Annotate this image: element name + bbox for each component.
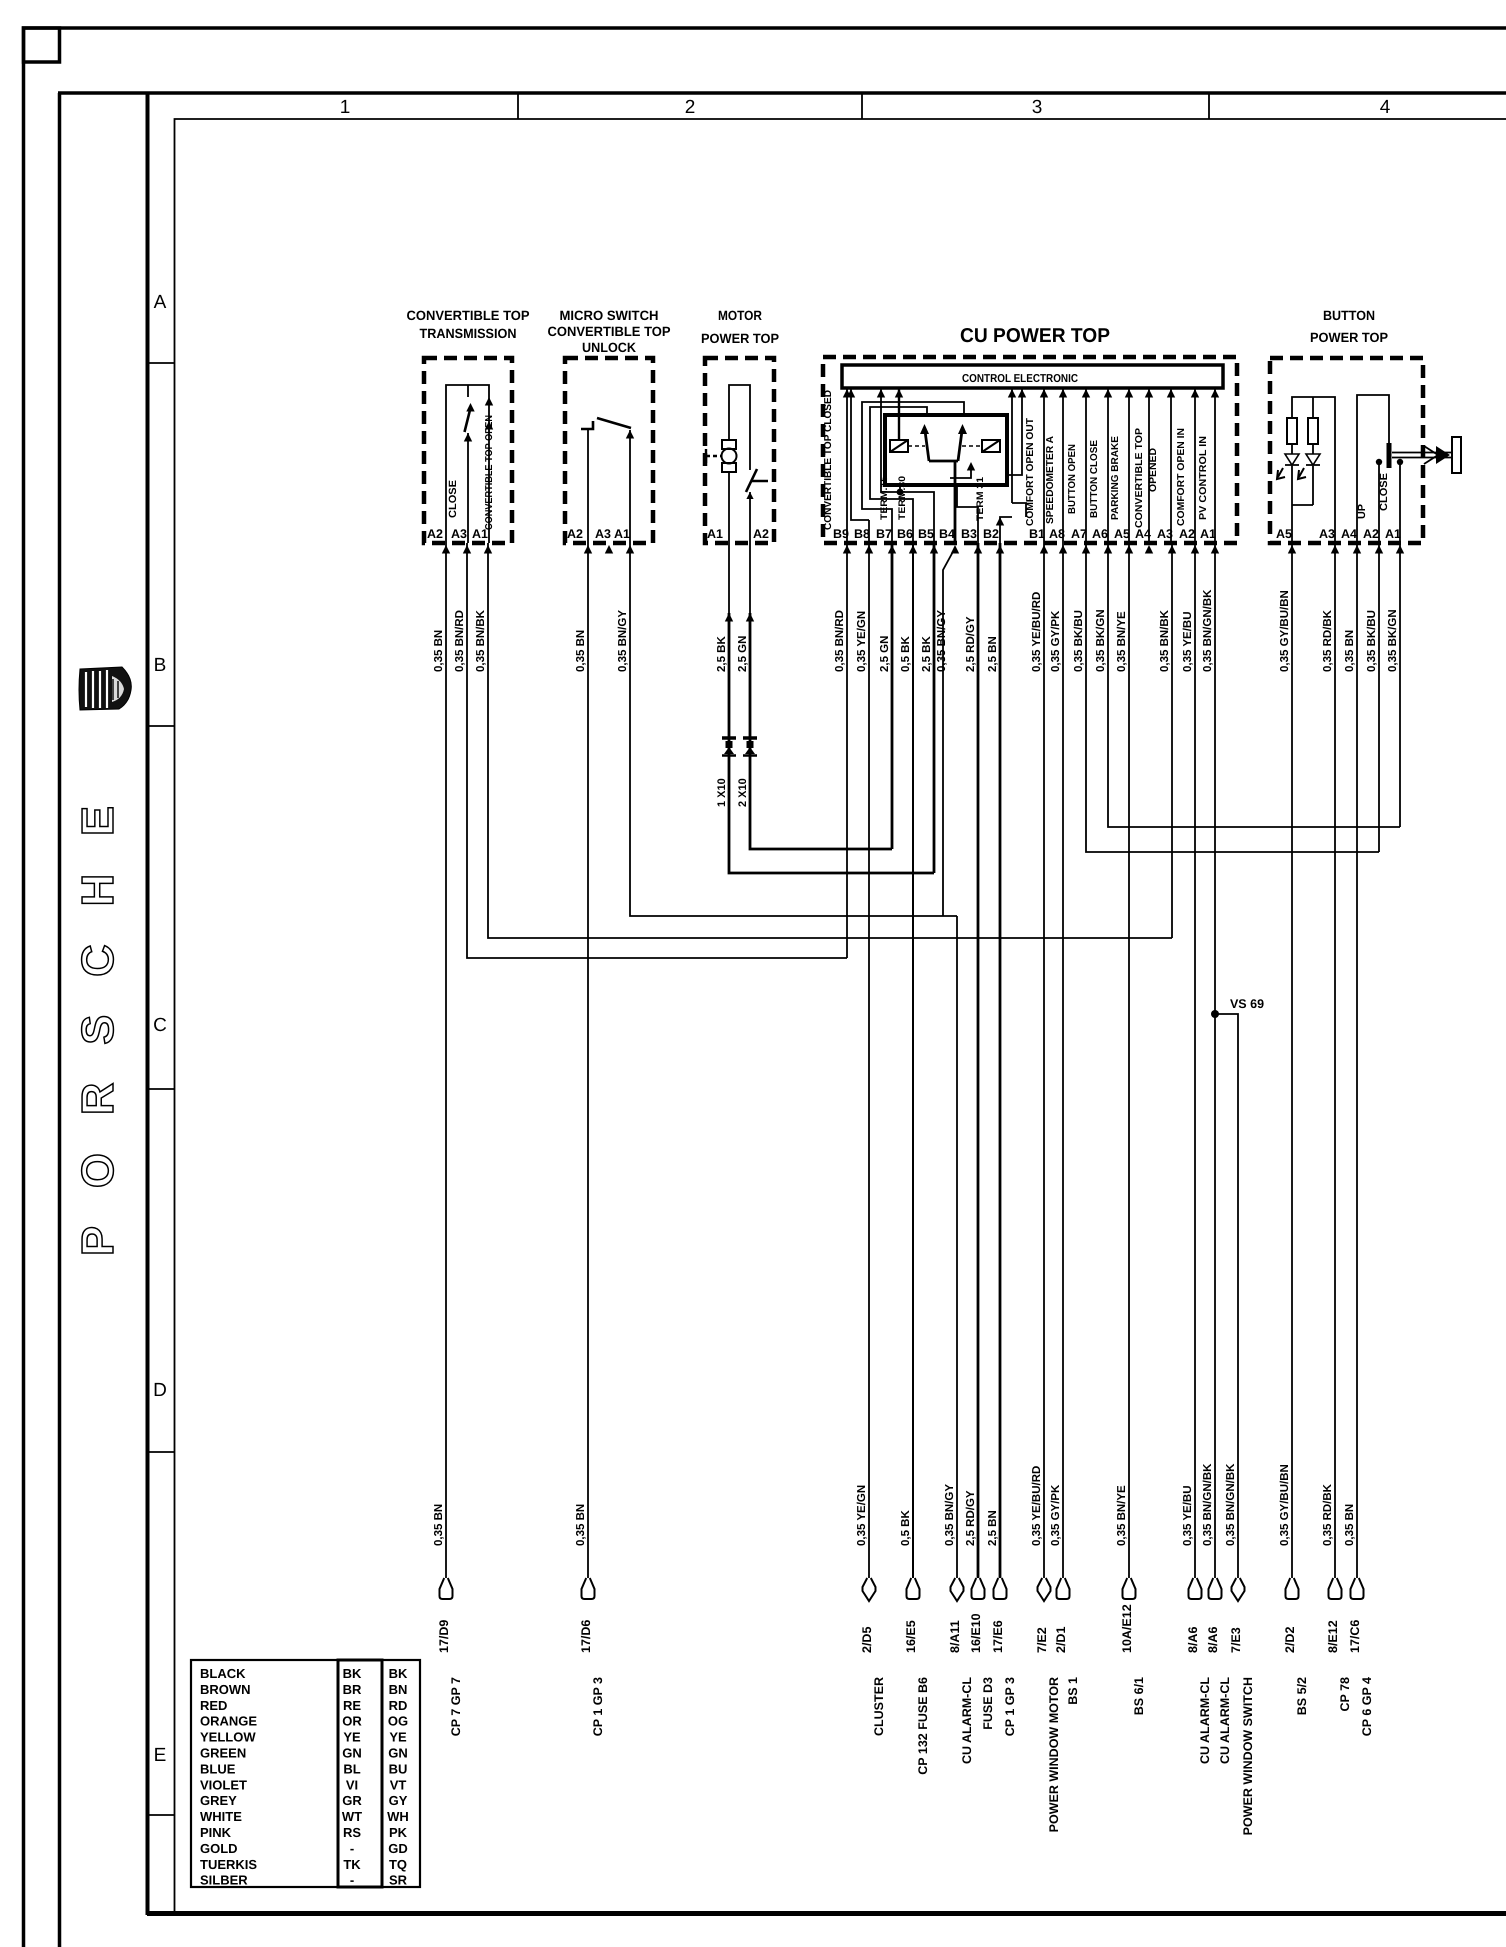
- svg-text:4: 4: [1380, 97, 1391, 118]
- pin arrow x=869: [865, 545, 873, 554]
- wire 2.5 BN CU B2 to CP 1 GP 3: [999, 543, 1002, 1578]
- pin arrow x=1379: [1375, 545, 1383, 554]
- svg-text:BS 1: BS 1: [1066, 1677, 1080, 1705]
- wire 0.35 BN micro A2 to CP 1 GP 3: [587, 543, 589, 1578]
- wire motor A1 stub: [728, 543, 730, 613]
- CU pin wire internal x=1215: [1214, 388, 1216, 543]
- node VS 69: [1211, 1010, 1219, 1018]
- svg-text:BS 6/1: BS 6/1: [1132, 1677, 1146, 1715]
- svg-text:BUTTON: BUTTON: [1323, 308, 1375, 323]
- transmission internal frame: [446, 385, 489, 543]
- svg-text:TUERKIS: TUERKIS: [200, 1857, 257, 1872]
- pin arrow x=1000: [996, 545, 1004, 554]
- plunger arrow head: [1436, 446, 1450, 464]
- wire 0.35 BN transmission A2 to CP 7 GP 7: [445, 543, 447, 1578]
- pin arrow x=1292: [1288, 545, 1296, 554]
- svg-text:MICRO SWITCH: MICRO SWITCH: [560, 308, 659, 323]
- svg-text:0,35 BN: 0,35 BN: [575, 1504, 587, 1546]
- CU pin wire B3 internal: [957, 485, 978, 543]
- wire 0.35 BK/GN button A1 drop: [1399, 543, 1401, 827]
- CU pin wire B9 internal: [846, 388, 848, 543]
- svg-text:CLOSE: CLOSE: [1378, 473, 1390, 511]
- svg-text:0,35 GY/BU/BN: 0,35 GY/BU/BN: [1279, 590, 1291, 672]
- button loop: [1357, 395, 1389, 543]
- svg-text:PARKING BRAKE: PARKING BRAKE: [1110, 436, 1121, 520]
- CU pin wire B5 internal: [881, 388, 934, 543]
- svg-text:GOLD: GOLD: [200, 1841, 238, 1856]
- connector 2 X10: [743, 738, 757, 756]
- legend middle column box: [338, 1660, 382, 1887]
- terminal CP 1 GP 3 17/D6: [582, 1578, 595, 1599]
- terminal CU ALARM-CL 8/A6: [1209, 1578, 1222, 1599]
- svg-text:0,35 YE/BU: 0,35 YE/BU: [1182, 611, 1194, 672]
- svg-text:A7: A7: [1071, 527, 1087, 541]
- svg-text:1: 1: [340, 97, 351, 118]
- svg-text:CONVERTIBLE TOP: CONVERTIBLE TOP: [1134, 428, 1145, 528]
- relay coil link dashed: [908, 445, 982, 447]
- motor M1 case stub: [706, 455, 721, 457]
- svg-text:0,5 BK: 0,5 BK: [900, 1510, 912, 1546]
- motor M1 upper brush: [722, 440, 736, 449]
- pin arrow x=934: [930, 545, 938, 554]
- svg-text:0,35 BN/GY: 0,35 BN/GY: [944, 1484, 956, 1546]
- svg-text:2,5 BN: 2,5 BN: [987, 636, 999, 672]
- svg-text:7/E3: 7/E3: [1229, 1627, 1243, 1653]
- svg-text:C: C: [153, 1015, 167, 1036]
- svg-text:ORANGE: ORANGE: [200, 1714, 257, 1729]
- svg-text:BU: BU: [389, 1761, 408, 1776]
- svg-text:B4: B4: [939, 527, 955, 541]
- arrow to control electronic: [1059, 389, 1067, 398]
- relay contact arm left: [925, 427, 930, 461]
- svg-text:A3: A3: [451, 527, 467, 541]
- arrow to control electronic: [1211, 389, 1219, 398]
- svg-text:SILBER: SILBER: [200, 1873, 248, 1888]
- svg-text:GN: GN: [342, 1746, 362, 1761]
- svg-text:CP 7 GP 7: CP 7 GP 7: [449, 1677, 463, 1736]
- svg-text:WT: WT: [342, 1809, 362, 1824]
- pin arrow x=630: [626, 545, 634, 554]
- arrow to control electronic: [1104, 389, 1112, 398]
- arrow on close wire: [464, 433, 472, 442]
- svg-text:CLUSTER: CLUSTER: [872, 1677, 886, 1736]
- motor loop top: [729, 385, 750, 470]
- motor M1 body: [722, 449, 737, 464]
- svg-text:POWER TOP: POWER TOP: [701, 331, 779, 346]
- svg-text:0,5 BK: 0,5 BK: [900, 636, 912, 672]
- svg-text:GY: GY: [389, 1793, 408, 1808]
- pin arrow motor x=750: [746, 613, 754, 622]
- svg-text:B2: B2: [983, 527, 999, 541]
- wire 2.5 GN motor A2 to CU B7: [750, 613, 892, 849]
- terminal CP 7 GP 7 17/D9: [440, 1578, 453, 1599]
- svg-text:BL: BL: [343, 1761, 360, 1776]
- svg-text:RE: RE: [343, 1698, 361, 1713]
- pin arrow x=1335: [1331, 545, 1339, 554]
- terminal CLUSTER 2/D5: [863, 1578, 876, 1601]
- svg-text:0,35 BN/YE: 0,35 BN/YE: [1116, 611, 1128, 672]
- wire motor A2 stub: [749, 543, 751, 613]
- svg-text:2,5 BK: 2,5 BK: [921, 636, 933, 672]
- CU pin wire B6 internal: [870, 407, 927, 543]
- svg-text:UNLOCK: UNLOCK: [582, 340, 636, 355]
- wire 0.35 BN/GY micro A1 run: [630, 543, 957, 916]
- pin arrow x=1357: [1353, 545, 1361, 554]
- svg-text:UP: UP: [1356, 504, 1368, 519]
- switch S1 upper stub: [467, 385, 469, 397]
- CU pin wire B2 internal: [1000, 388, 1026, 543]
- svg-text:CU ALARM-CL: CU ALARM-CL: [1198, 1677, 1212, 1764]
- svg-text:TERM 31: TERM 31: [975, 476, 986, 521]
- svg-text:PINK: PINK: [200, 1825, 232, 1840]
- terminal BS 1 2/D1: [1057, 1578, 1070, 1599]
- arrow contact left: [920, 424, 929, 434]
- pin arrow x=978: [974, 545, 982, 554]
- svg-text:0,35 BN/GN/BK: 0,35 BN/GN/BK: [1202, 1463, 1214, 1546]
- svg-text:COMFORT OPEN IN: COMFORT OPEN IN: [1176, 428, 1187, 526]
- pin arrow x=847: [843, 545, 851, 554]
- svg-text:VT: VT: [390, 1777, 407, 1792]
- pin arrow motor x=729: [725, 613, 733, 622]
- motor output wire: [728, 472, 730, 543]
- svg-text:CU POWER TOP: CU POWER TOP: [960, 325, 1110, 347]
- svg-text:7/E2: 7/E2: [1035, 1627, 1049, 1653]
- junction node B5/relay: [897, 489, 904, 496]
- arrow to control electronic: [895, 389, 903, 398]
- relay coil left (term.15): [890, 440, 908, 452]
- CU pin wire internal x=1171: [1170, 388, 1172, 543]
- svg-text:YELLOW: YELLOW: [200, 1730, 256, 1745]
- svg-text:B1: B1: [1029, 527, 1045, 541]
- svg-text:A5: A5: [1114, 527, 1130, 541]
- svg-text:BK: BK: [343, 1666, 362, 1681]
- svg-text:A8: A8: [1049, 527, 1065, 541]
- svg-text:0,35 BN: 0,35 BN: [1344, 630, 1356, 672]
- svg-text:CONVERTIBLE TOP: CONVERTIBLE TOP: [548, 324, 671, 339]
- svg-text:BR: BR: [343, 1682, 362, 1697]
- svg-text:RS: RS: [343, 1825, 361, 1840]
- relay aux wire: [1007, 388, 1022, 475]
- svg-text:8/A6: 8/A6: [1186, 1627, 1200, 1653]
- svg-text:17/C6: 17/C6: [1348, 1620, 1362, 1653]
- wire 2.5 BK motor A1 to CU B5: [729, 613, 934, 873]
- motor power top box: [705, 358, 774, 543]
- svg-text:0,35 BN/GN/BK: 0,35 BN/GN/BK: [1225, 1463, 1237, 1546]
- svg-text:0,35 BN/RD: 0,35 BN/RD: [834, 610, 846, 672]
- svg-text:17/D9: 17/D9: [437, 1620, 451, 1653]
- svg-text:0,35 YE/BU/RD: 0,35 YE/BU/RD: [1031, 592, 1043, 672]
- pin arrow x=446: [442, 545, 450, 554]
- contact node A1: [1397, 459, 1403, 465]
- svg-text:VIOLET: VIOLET: [200, 1777, 247, 1792]
- motor switch blade: [746, 469, 757, 492]
- pin arrow x=1108: [1104, 545, 1112, 554]
- svg-text:A4: A4: [1341, 527, 1357, 541]
- svg-text:CP 1 GP 3: CP 1 GP 3: [591, 1677, 605, 1736]
- arrow B2 term31: [996, 517, 1004, 526]
- svg-text:16/E5: 16/E5: [904, 1620, 918, 1653]
- svg-text:17/D6: 17/D6: [579, 1620, 593, 1653]
- svg-text:BROWN: BROWN: [200, 1682, 251, 1697]
- CU pin wire B4 internal (2.5mm): [954, 461, 957, 543]
- CU pin wire internal x=1195: [1194, 388, 1196, 543]
- micro switch wire A2: [587, 429, 589, 543]
- svg-text:2,5 BN: 2,5 BN: [987, 1510, 999, 1546]
- micro switch convertible top unlock box: [565, 358, 653, 543]
- svg-text:0,35 YE/GN: 0,35 YE/GN: [856, 611, 868, 672]
- svg-text:CP 78: CP 78: [1338, 1677, 1352, 1712]
- pin arrow x=1172: [1168, 545, 1176, 554]
- motor switch tick: [751, 480, 768, 483]
- svg-text:YE: YE: [389, 1730, 407, 1745]
- terminal POWER WINDOW MOTOR 7/E2: [1038, 1578, 1051, 1601]
- svg-text:0,35 BN: 0,35 BN: [1344, 1504, 1356, 1546]
- LED D1: [1285, 444, 1299, 505]
- svg-text:BLUE: BLUE: [200, 1761, 236, 1776]
- resistor R2: [1312, 397, 1314, 418]
- svg-text:-: -: [350, 1841, 354, 1856]
- arrow into switch: [466, 403, 474, 412]
- LED D2: [1306, 444, 1320, 505]
- svg-text:0,35 BN/RD: 0,35 BN/RD: [454, 610, 466, 672]
- motor switch lower wire: [749, 492, 751, 543]
- pin arrow x=1044: [1040, 545, 1048, 554]
- convertible top transmission box: [424, 358, 512, 543]
- button contact bar: [1387, 443, 1392, 468]
- arrow to control electronic: [843, 389, 851, 398]
- CU pin wire B7 internal: [862, 402, 964, 543]
- svg-text:2,5 GN: 2,5 GN: [879, 636, 891, 672]
- svg-text:A3: A3: [1319, 527, 1335, 541]
- contact node A2: [1376, 459, 1382, 465]
- svg-text:WH: WH: [387, 1809, 409, 1824]
- CU pin wire internal x=1086: [1085, 388, 1087, 543]
- svg-text:A2: A2: [567, 527, 583, 541]
- svg-text:CP 1 GP 3: CP 1 GP 3: [1003, 1677, 1017, 1736]
- colour legend table: [191, 1660, 420, 1887]
- svg-text:RD: RD: [389, 1698, 408, 1713]
- svg-text:POWER WINDOW SWITCH: POWER WINDOW SWITCH: [1241, 1677, 1255, 1835]
- CU power top box: [823, 357, 1237, 543]
- terminal BS 6/1 10A/E12: [1123, 1578, 1136, 1599]
- arrow micro A1 contact: [626, 430, 634, 439]
- svg-text:0,35 RD/BK: 0,35 RD/BK: [1322, 1483, 1334, 1546]
- svg-text:BUTTON CLOSE: BUTTON CLOSE: [1089, 440, 1100, 518]
- svg-text:8/A11: 8/A11: [948, 1620, 962, 1653]
- arrow to control electronic: [1167, 389, 1175, 398]
- CU pin wire B8 internal: [851, 388, 869, 543]
- wire 0.35 GY/PK CU A8 to BS 1: [1062, 543, 1064, 1578]
- svg-text:2,5 RD/GY: 2,5 RD/GY: [965, 1490, 977, 1546]
- svg-text:0,35 BN/GY: 0,35 BN/GY: [936, 610, 948, 672]
- arrow to control electronic: [1082, 389, 1090, 398]
- wire 0.5 BK CU B6 to CP 132 FUSE B6: [912, 543, 914, 1578]
- wire 0.35 YE/BU/RD CU B1 to POWER WINDOW MOTOR: [1043, 543, 1045, 1578]
- svg-text:SPEEDOMETER A: SPEEDOMETER A: [1045, 436, 1056, 524]
- svg-text:A1: A1: [1385, 527, 1401, 541]
- pin arrow x=1215: [1211, 545, 1219, 554]
- terminal CP 132 FUSE B6 16/E5: [907, 1578, 920, 1599]
- switch S1 lower wire: [467, 433, 469, 543]
- wire 0.35 BK/BU button A2 drop: [1378, 543, 1380, 852]
- svg-text:0,35 BK/BU: 0,35 BK/BU: [1073, 610, 1085, 672]
- svg-text:VS 69: VS 69: [1230, 997, 1264, 1011]
- arrow relay output: [967, 462, 975, 471]
- micro switch wire A1: [629, 430, 631, 543]
- switch S1 blade: [465, 408, 471, 432]
- pin arrow x=467: [463, 545, 471, 554]
- svg-text:TERM.15: TERM.15: [879, 475, 890, 520]
- sheet corner box: [24, 28, 60, 62]
- LED chain bottom join: [1292, 505, 1313, 543]
- svg-text:E: E: [154, 1745, 167, 1766]
- wire 0.35 BK/BU CU A7 to button A2: [1086, 543, 1379, 852]
- terminal CU ALARM-CL 8/A11: [951, 1578, 964, 1601]
- drawing margin thick vertical: [146, 93, 150, 1915]
- micro switch blade: [597, 418, 631, 428]
- svg-text:TQ: TQ: [389, 1857, 407, 1872]
- svg-text:CP 132 FUSE B6: CP 132 FUSE B6: [916, 1677, 930, 1775]
- arrow motor switch: [746, 492, 753, 499]
- svg-text:A3: A3: [595, 527, 611, 541]
- LED D1 emission arrow: [1277, 468, 1285, 479]
- svg-text:GD: GD: [388, 1841, 408, 1856]
- svg-text:8/A6: 8/A6: [1206, 1627, 1220, 1653]
- svg-text:2/D2: 2/D2: [1283, 1627, 1297, 1653]
- terminal POWER WINDOW SWITCH 7/E3: [1232, 1578, 1245, 1601]
- svg-text:GN: GN: [388, 1746, 408, 1761]
- terminal BS 5/2 2/D2: [1286, 1578, 1299, 1599]
- svg-text:10A/E12: 10A/E12: [1120, 1604, 1134, 1653]
- pin arrow x=1086: [1082, 545, 1090, 554]
- svg-text:B3: B3: [961, 527, 977, 541]
- connector 1 X10: [722, 738, 736, 756]
- wire 0.35 BN/RD transmission A3 to CU B9: [467, 543, 847, 958]
- svg-text:CU ALARM-CL: CU ALARM-CL: [960, 1677, 974, 1764]
- svg-text:CONVERTIBLE TOP CLOSED: CONVERTIBLE TOP CLOSED: [823, 390, 834, 530]
- svg-text:0,35 YE/GN: 0,35 YE/GN: [856, 1485, 868, 1546]
- svg-text:CONVERTIBLE TOP OPEN: CONVERTIBLE TOP OPEN: [484, 415, 495, 530]
- arrow to control electronic: [1145, 389, 1153, 398]
- terminal CP 78 8/E12: [1329, 1578, 1342, 1599]
- wire 0.35 BN/BK CU A3 drop: [1171, 543, 1173, 938]
- arrow to control electronic: [1125, 389, 1133, 398]
- button plunger rods: [1392, 453, 1452, 458]
- svg-text:RED: RED: [200, 1698, 227, 1713]
- pin arrow x=1149: [1145, 545, 1153, 554]
- svg-text:FUSE D3: FUSE D3: [981, 1677, 995, 1730]
- pin arrow x=1400: [1396, 545, 1404, 554]
- svg-text:A1: A1: [1200, 527, 1216, 541]
- svg-text:COMFORT OPEN OUT: COMFORT OPEN OUT: [1025, 418, 1036, 526]
- svg-text:A3: A3: [1157, 527, 1173, 541]
- svg-text:A2: A2: [1179, 527, 1195, 541]
- svg-text:B5: B5: [918, 527, 934, 541]
- svg-text:A2: A2: [753, 527, 769, 541]
- svg-text:POWER TOP: POWER TOP: [1310, 330, 1388, 345]
- svg-text:B: B: [154, 655, 167, 676]
- svg-text:2/D5: 2/D5: [860, 1627, 874, 1653]
- svg-text:0,35 YE/BU: 0,35 YE/BU: [1182, 1485, 1194, 1546]
- svg-text:B8: B8: [854, 527, 870, 541]
- arrow pin A1 branch upper: [485, 397, 493, 406]
- svg-text:0,35 BN/BK: 0,35 BN/BK: [1159, 609, 1171, 672]
- wire 0.35 BN/BK transmission A1 to CU A3: [488, 543, 1172, 938]
- wire 2.5 GN CU B7 drop: [891, 543, 894, 849]
- svg-text:17/E6: 17/E6: [991, 1620, 1005, 1653]
- svg-text:WHITE: WHITE: [200, 1809, 242, 1824]
- svg-text:BN: BN: [389, 1682, 408, 1697]
- svg-text:GR: GR: [342, 1793, 362, 1808]
- LED chain top rail: [1292, 397, 1335, 543]
- CU pin wire internal x=1063: [1062, 388, 1064, 543]
- wire 2.5 BK CU B5 drop: [933, 543, 936, 873]
- pin arrow x=913: [909, 545, 917, 554]
- pin arrow x=1195: [1191, 545, 1199, 554]
- contact wire A1: [1399, 462, 1401, 543]
- button power top box: [1270, 358, 1423, 543]
- pin arrow x=955: [951, 545, 959, 554]
- wire 2.5 RD/GY CU B3 to FUSE D3: [977, 543, 980, 1578]
- svg-text:CONTROL ELECTRONIC: CONTROL ELECTRONIC: [962, 373, 1078, 385]
- svg-text:A4: A4: [1135, 527, 1151, 541]
- svg-text:0,35 BN/BK: 0,35 BN/BK: [475, 609, 487, 672]
- motor M1 case tick: [705, 449, 707, 463]
- arrow to control electronic: [1191, 389, 1199, 398]
- wire 0.35 BN button A4 to CP 6 GP 4: [1356, 543, 1358, 1578]
- wire 0.35 YE/GN CU B8 to CLUSTER: [868, 543, 870, 1578]
- svg-text:A6: A6: [1092, 527, 1108, 541]
- svg-text:3: 3: [1032, 97, 1043, 118]
- svg-text:0,35 BN/YE: 0,35 BN/YE: [1116, 1485, 1128, 1546]
- micro switch contact bracket: [581, 421, 593, 429]
- svg-text:A1: A1: [707, 527, 723, 541]
- pin arrow x=609: [605, 545, 613, 554]
- arrow to control electronic: [847, 389, 855, 398]
- svg-text:2 X10: 2 X10: [737, 778, 749, 807]
- relay contact arm right: [958, 427, 963, 461]
- svg-text:A5: A5: [1276, 527, 1292, 541]
- resistor R1: [1287, 418, 1297, 444]
- button plunger arrow: [1424, 446, 1438, 464]
- svg-text:OR: OR: [342, 1714, 362, 1729]
- wire 0.35 BN/GN/BK branch to POWER WINDOW SWITCH: [1215, 1014, 1238, 1578]
- svg-text:-: -: [350, 1873, 354, 1888]
- svg-text:0,35 BN/GY: 0,35 BN/GY: [617, 610, 629, 672]
- svg-text:BLACK: BLACK: [200, 1666, 246, 1681]
- wire 0.35 GY/BU/BN button A5 to BS 5/2: [1291, 543, 1293, 1578]
- svg-text:0,35 BK/BU: 0,35 BK/BU: [1366, 610, 1378, 672]
- Porsche crest logo: [79, 667, 131, 710]
- wire 0.35 RD/BK button A3 to CP 78: [1334, 543, 1336, 1578]
- wire 0.35 YE/BU CU A2 to CU ALARM-CL: [1194, 543, 1196, 1578]
- svg-text:OG: OG: [388, 1714, 408, 1729]
- relay contact feed stub: [899, 485, 901, 492]
- contact wire A2: [1378, 462, 1380, 543]
- relay coil feed term30: [898, 388, 900, 440]
- arrow to control electronic: [877, 389, 885, 398]
- svg-text:PV CONTROL IN: PV CONTROL IN: [1198, 436, 1209, 520]
- svg-text:CONVERTIBLE TOP: CONVERTIBLE TOP: [407, 308, 530, 323]
- terminal CP 1 GP 3 17/E6: [994, 1578, 1007, 1599]
- svg-text:0,35 BK/GN: 0,35 BK/GN: [1095, 609, 1107, 672]
- arrow to control electronic: [1040, 389, 1048, 398]
- svg-text:2/D1: 2/D1: [1054, 1627, 1068, 1653]
- svg-text:0,35 BN: 0,35 BN: [575, 630, 587, 672]
- svg-text:TERM.30: TERM.30: [897, 476, 908, 520]
- pin arrow x=892: [888, 545, 896, 554]
- svg-text:CU ALARM-CL: CU ALARM-CL: [1218, 1677, 1232, 1764]
